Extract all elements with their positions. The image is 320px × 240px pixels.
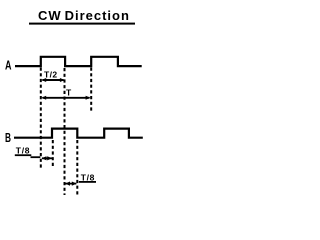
arrowhead T right	[86, 96, 91, 100]
svg-text:T/8: T/8	[16, 146, 30, 156]
arrowhead T left	[41, 96, 46, 100]
waveform B	[14, 129, 143, 138]
leader line from upper T/8 label to dimension	[31, 156, 41, 158]
dashed extension line from B rise 1	[52, 140, 54, 168]
arrowhead upper T/8 left	[42, 156, 47, 160]
dimension line T/2	[43, 79, 64, 81]
title underline	[29, 23, 135, 25]
svg-text:CW Direction: CW Direction	[38, 8, 130, 23]
underline of lower T/8 label	[79, 181, 96, 183]
dimension line T/8 upper	[42, 157, 52, 159]
arrowhead lower T/8 right	[72, 182, 77, 186]
dimension line T/8 lower	[66, 183, 77, 185]
waveform A	[15, 57, 142, 66]
arrowhead upper T/8 right	[47, 156, 52, 160]
dashed extension line from A rise 1	[40, 68, 42, 171]
arrowhead lower T/8 left	[65, 182, 70, 186]
underline of upper T/8 label	[15, 154, 32, 156]
dashed extension line from B fall 1	[76, 140, 78, 195]
svg-text:A: A	[5, 59, 12, 73]
dashed extension line from A fall 1	[64, 68, 66, 195]
svg-text:T/2: T/2	[44, 70, 57, 80]
svg-text:T: T	[66, 88, 72, 98]
arrowhead T/2 right	[60, 78, 65, 82]
arrowhead T/2 left	[41, 78, 46, 82]
dashed extension line from A rise 2	[90, 68, 92, 112]
svg-text:B: B	[5, 131, 11, 145]
dimension line T	[43, 97, 90, 99]
